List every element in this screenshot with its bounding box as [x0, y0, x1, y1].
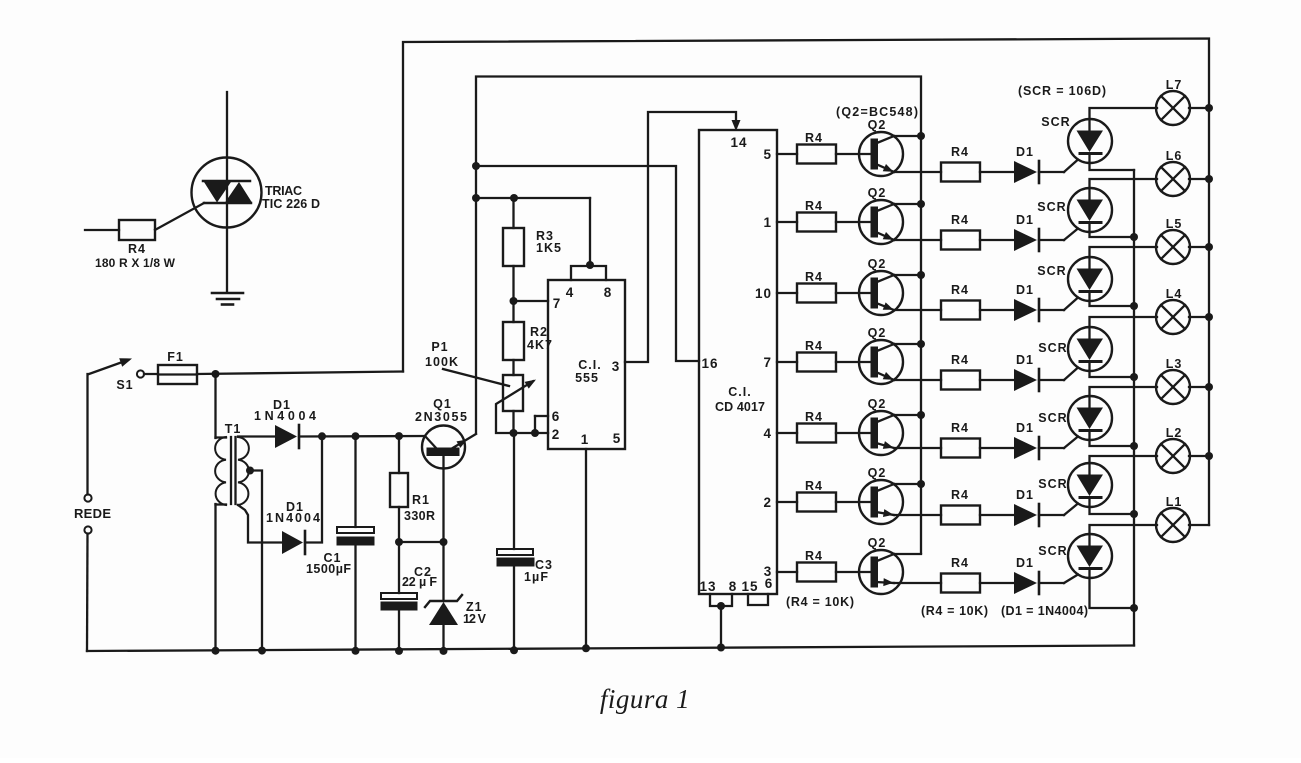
- svg-text:15: 15: [741, 579, 758, 594]
- svg-text:R4: R4: [951, 145, 969, 159]
- svg-text:L6: L6: [1166, 149, 1183, 163]
- svg-text:R4: R4: [805, 410, 823, 424]
- svg-text:1: 1: [763, 215, 772, 230]
- svg-text:R4: R4: [805, 339, 823, 353]
- svg-text:figura 1: figura 1: [600, 684, 690, 714]
- svg-text:SCR: SCR: [1041, 115, 1070, 129]
- svg-text:TIC 226 D: TIC 226 D: [262, 197, 321, 211]
- svg-text:C.I.: C.I.: [578, 358, 601, 372]
- svg-text:330R: 330R: [404, 509, 436, 523]
- svg-text:13: 13: [699, 579, 716, 594]
- svg-text:D1: D1: [1016, 283, 1034, 297]
- svg-text:5: 5: [763, 147, 772, 162]
- svg-text:L2: L2: [1166, 426, 1183, 440]
- svg-text:3: 3: [612, 359, 621, 374]
- svg-text:22 µ F: 22 µ F: [402, 575, 438, 589]
- svg-text:D1: D1: [1016, 488, 1034, 502]
- svg-text:14: 14: [730, 135, 747, 150]
- svg-text:T1: T1: [225, 422, 242, 436]
- svg-text:F1: F1: [167, 350, 184, 364]
- svg-text:1: 1: [581, 432, 590, 447]
- svg-text:7: 7: [763, 355, 772, 370]
- svg-text:Q2: Q2: [868, 186, 887, 200]
- svg-text:1N4004: 1N4004: [266, 511, 321, 525]
- svg-text:100K: 100K: [425, 355, 459, 369]
- svg-text:R2: R2: [530, 325, 548, 339]
- svg-text:L5: L5: [1166, 217, 1183, 231]
- svg-text:S1: S1: [116, 378, 133, 392]
- svg-text:C.I.: C.I.: [728, 385, 751, 399]
- svg-text:1500µF: 1500µF: [306, 562, 352, 576]
- svg-text:5: 5: [613, 431, 622, 446]
- svg-text:Q2: Q2: [868, 326, 887, 340]
- svg-text:SCR: SCR: [1037, 264, 1066, 278]
- svg-text:TRIAC: TRIAC: [265, 184, 303, 198]
- svg-text:10: 10: [755, 286, 772, 301]
- svg-text:4: 4: [763, 426, 772, 441]
- svg-text:L7: L7: [1166, 78, 1183, 92]
- svg-text:16: 16: [701, 356, 718, 371]
- svg-text:3: 3: [764, 564, 773, 579]
- svg-text:SCR: SCR: [1038, 411, 1067, 425]
- svg-text:R4: R4: [805, 270, 823, 284]
- svg-text:R4: R4: [951, 283, 969, 297]
- svg-text:R4: R4: [805, 199, 823, 213]
- svg-text:D1: D1: [1016, 213, 1034, 227]
- svg-text:1K5: 1K5: [536, 241, 562, 255]
- svg-text:SCR: SCR: [1038, 477, 1067, 491]
- svg-text:SCR: SCR: [1038, 544, 1067, 558]
- svg-text:L3: L3: [1166, 357, 1183, 371]
- svg-text:Q2: Q2: [868, 118, 887, 132]
- svg-text:Q2: Q2: [868, 536, 887, 550]
- svg-text:P1: P1: [431, 340, 448, 354]
- svg-text:R4: R4: [951, 556, 969, 570]
- svg-text:REDE: REDE: [74, 506, 112, 521]
- svg-text:R4: R4: [805, 479, 823, 493]
- svg-text:2N3055: 2N3055: [415, 410, 468, 424]
- svg-text:12 V: 12 V: [463, 612, 487, 626]
- svg-text:(R4 = 10K): (R4 = 10K): [921, 604, 989, 618]
- svg-text:555: 555: [575, 371, 599, 385]
- svg-text:1 µ F: 1 µ F: [524, 570, 549, 584]
- svg-text:Q1: Q1: [433, 397, 452, 411]
- svg-text:R4: R4: [805, 131, 823, 145]
- svg-text:CD 4017: CD 4017: [715, 400, 766, 414]
- svg-text:D1: D1: [1016, 353, 1034, 367]
- svg-text:180 R X 1/8 W: 180 R X 1/8 W: [95, 256, 176, 270]
- svg-text:(Q2=BC548): (Q2=BC548): [836, 105, 919, 119]
- svg-text:4: 4: [566, 285, 575, 300]
- svg-text:R1: R1: [412, 493, 430, 507]
- svg-text:Q2: Q2: [868, 257, 887, 271]
- svg-text:(SCR = 106D): (SCR = 106D): [1018, 84, 1107, 98]
- svg-text:R4: R4: [128, 242, 146, 256]
- svg-text:8: 8: [729, 579, 738, 594]
- svg-text:D1: D1: [1016, 556, 1034, 570]
- svg-text:SCR: SCR: [1037, 200, 1066, 214]
- svg-text:D1: D1: [1016, 145, 1034, 159]
- svg-text:R4: R4: [951, 213, 969, 227]
- svg-text:8: 8: [604, 285, 613, 300]
- svg-text:D1: D1: [1016, 421, 1034, 435]
- svg-text:R4: R4: [951, 353, 969, 367]
- svg-text:6: 6: [552, 409, 561, 424]
- svg-text:(D1 = 1N4004): (D1 = 1N4004): [1001, 604, 1089, 618]
- svg-text:R4: R4: [805, 549, 823, 563]
- svg-text:2: 2: [552, 427, 561, 442]
- svg-text:L4: L4: [1166, 287, 1183, 301]
- svg-text:(R4 = 10K): (R4 = 10K): [786, 595, 855, 609]
- svg-text:2: 2: [763, 495, 772, 510]
- svg-text:R4: R4: [951, 421, 969, 435]
- svg-text:Q2: Q2: [868, 466, 887, 480]
- svg-text:SCR: SCR: [1038, 341, 1067, 355]
- svg-text:R4: R4: [951, 488, 969, 502]
- svg-text:Q2: Q2: [868, 397, 887, 411]
- svg-text:L1: L1: [1166, 495, 1183, 509]
- svg-text:7: 7: [553, 296, 562, 311]
